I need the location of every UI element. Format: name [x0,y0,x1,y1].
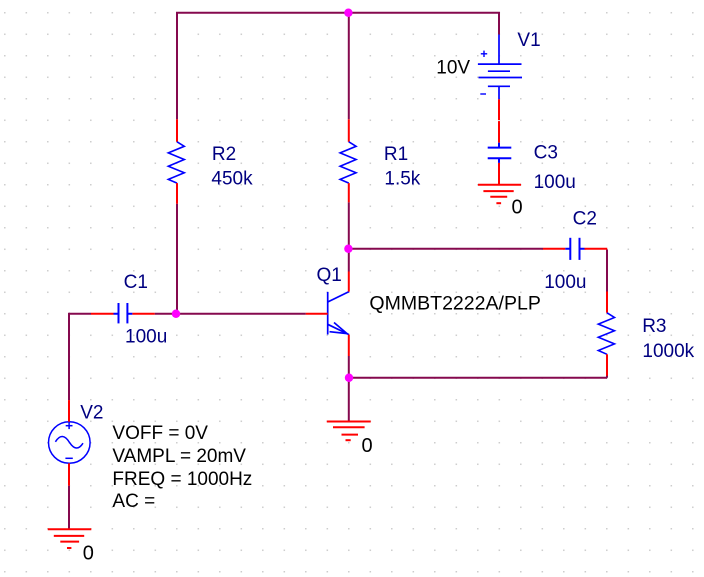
wire: R2 bottom to base node [176,204,178,314]
resistor R2 [168,119,184,203]
svg-text:VAMPL = 20mV: VAMPL = 20mV [112,446,246,467]
svg-text:C2: C2 [573,208,597,229]
junction: base node [172,310,180,318]
svg-text:0: 0 [362,435,373,457]
capacitor C2 [543,238,607,260]
wire: C2 right corner down to R3 top [606,250,608,292]
svg-text:Q1: Q1 [317,265,342,286]
wire: top rail [176,12,500,14]
wire: R1 bottom to collector node [348,202,350,248]
capacitor C3 [488,121,512,185]
svg-text:1000k: 1000k [642,341,694,362]
svg-text:C3: C3 [534,143,558,164]
svg-text:VOFF = 0V: VOFF = 0V [112,423,208,444]
svg-text:10V: 10V [436,57,470,78]
svg-text:V1: V1 [517,30,540,51]
svg-text:100u: 100u [125,326,167,347]
wire: Q1 emitter pin to emitter node [348,356,350,378]
junction: collector node [344,245,352,253]
pin: Q1 emitter [348,335,350,356]
pin: V1 minus pin [498,99,500,120]
pin gap between V1 and C3 [498,119,500,122]
svg-text:450k: 450k [211,169,253,190]
wire: left drop to V2 [68,313,70,400]
capacitor C1 [91,303,155,323]
svg-text:100u: 100u [534,172,576,193]
svg-text:FREQ = 1000Hz: FREQ = 1000Hz [112,469,252,490]
svg-text:V2: V2 [80,403,103,424]
battery V1 [478,35,522,100]
wire: base rail to Q1 base pin [177,313,306,315]
svg-text:C1: C1 [124,272,148,293]
ground 0 at V2 [48,529,92,548]
resistor R1 [340,119,356,202]
svg-text:R1: R1 [384,144,408,165]
sine source V2 [49,422,91,464]
wire: battery riser from top rail to V1 [498,13,500,35]
svg-text:100u: 100u [544,272,586,293]
pin: Q1 base [306,313,328,315]
wire: emitter node down to ground [348,378,350,422]
svg-text:0: 0 [83,542,94,564]
junction: top rail / R1 riser [344,9,352,17]
transistor Q1 [328,292,349,335]
wire: R1 riser from top rail [348,13,350,120]
ground 0 at Q1 emitter [327,422,371,441]
wire: left riser from top rail to R2 [176,13,178,120]
ground 0 at C3 [478,185,521,204]
junction: emitter node [345,374,353,382]
pin: V2 plus pin [68,400,70,422]
wire: V2 bottom to ground [68,486,70,529]
wire: corner to C1 left pin [69,313,91,315]
svg-text:AC =: AC = [112,491,155,512]
wire: R3 bottom corner [606,376,608,378]
wire: collector node down to Q1 collector pin [348,249,350,272]
svg-text:0: 0 [512,196,523,218]
svg-text:1.5k: 1.5k [384,169,420,190]
svg-text:R2: R2 [212,144,236,165]
pin: V2 minus pin [68,463,70,485]
svg-text:QMMBT2222A/PLP: QMMBT2222A/PLP [369,294,541,315]
wire: emitter rail to R3 bottom [349,377,607,379]
wire: collector rail to C2 [349,248,543,250]
resistor R3 [598,292,614,376]
pin: Q1 collector [348,272,350,292]
wire: C1 right to base node [155,313,177,315]
svg-text:R3: R3 [642,316,666,337]
